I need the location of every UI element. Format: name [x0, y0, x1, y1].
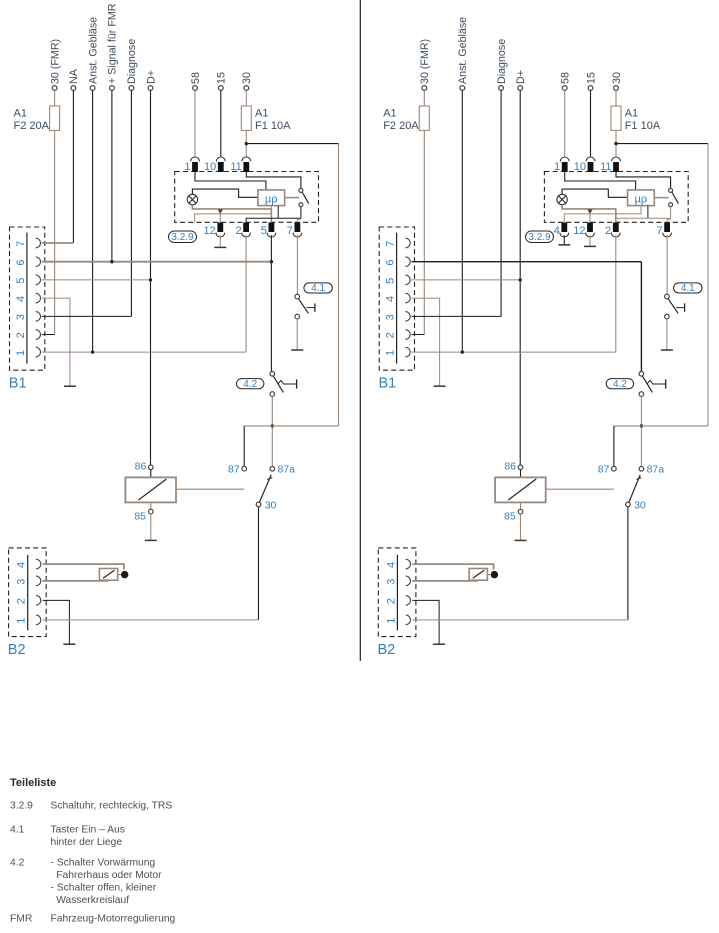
svg-text:87a: 87a [647, 464, 665, 476]
svg-text:Schaltuhr, rechteckig, TRS: Schaltuhr, rechteckig, TRS [51, 800, 173, 811]
svg-text:58: 58 [190, 72, 202, 84]
svg-text:NA: NA [68, 68, 80, 84]
svg-text:1: 1 [385, 350, 397, 356]
svg-text:7: 7 [15, 241, 27, 247]
svg-text:2: 2 [15, 332, 27, 338]
svg-text:2: 2 [605, 225, 611, 237]
svg-text:µρ: µρ [265, 194, 278, 206]
svg-text:30: 30 [265, 500, 277, 512]
svg-text:Fahrzeug-Motorregulierung: Fahrzeug-Motorregulierung [51, 914, 176, 925]
svg-text:µρ: µρ [635, 194, 648, 206]
svg-text:5: 5 [261, 225, 267, 237]
svg-text:hinter der Liege: hinter der Liege [51, 837, 123, 848]
svg-text:Anst. Gebläse: Anst. Gebläse [457, 17, 469, 84]
svg-text:6: 6 [385, 259, 397, 265]
svg-text:87: 87 [228, 464, 240, 476]
svg-text:1: 1 [385, 618, 397, 624]
svg-text:3: 3 [385, 314, 397, 320]
svg-text:- Schalter offen, kleiner: - Schalter offen, kleiner [51, 883, 157, 894]
svg-text:2: 2 [16, 598, 28, 604]
svg-text:30: 30 [241, 72, 253, 84]
svg-text:- Schalter Vorwärmung: - Schalter Vorwärmung [51, 858, 156, 869]
svg-text:A1: A1 [625, 108, 638, 120]
svg-text:F1 10A: F1 10A [625, 120, 661, 132]
svg-text:86: 86 [504, 461, 516, 473]
svg-text:B2: B2 [378, 642, 396, 658]
svg-text:7: 7 [385, 241, 397, 247]
svg-text:D+: D+ [145, 70, 157, 84]
svg-text:15: 15 [216, 72, 228, 84]
svg-text:1: 1 [16, 618, 28, 624]
svg-text:87: 87 [598, 464, 610, 476]
svg-text:A1: A1 [383, 108, 396, 120]
svg-text:4: 4 [385, 562, 397, 568]
svg-text:3.2.9: 3.2.9 [171, 232, 194, 243]
svg-text:30: 30 [611, 72, 623, 84]
svg-text:F2 20A: F2 20A [383, 120, 419, 132]
svg-text:A1: A1 [255, 108, 268, 120]
svg-text:10: 10 [204, 161, 216, 173]
svg-text:Wasserkreislauf: Wasserkreislauf [51, 895, 130, 906]
svg-text:3: 3 [16, 579, 28, 585]
svg-text:4: 4 [15, 296, 27, 302]
svg-text:7: 7 [287, 225, 293, 237]
svg-text:Diagnose: Diagnose [126, 39, 138, 84]
svg-text:+ Signal für FMR: + Signal für FMR [107, 3, 119, 84]
svg-text:3.2.9: 3.2.9 [528, 232, 551, 243]
svg-text:2: 2 [235, 225, 241, 237]
svg-text:4: 4 [16, 562, 28, 568]
svg-text:B1: B1 [379, 376, 397, 392]
svg-text:D+: D+ [515, 70, 527, 84]
svg-text:4.2: 4.2 [10, 858, 25, 869]
svg-text:86: 86 [135, 461, 147, 473]
svg-text:B2: B2 [8, 642, 26, 658]
svg-text:4: 4 [554, 225, 560, 237]
svg-text:5: 5 [385, 278, 397, 284]
svg-text:7: 7 [656, 225, 662, 237]
svg-text:58: 58 [560, 72, 572, 84]
svg-text:4.1: 4.1 [681, 283, 695, 294]
svg-text:4.1: 4.1 [10, 825, 25, 836]
svg-text:3: 3 [385, 579, 397, 585]
svg-text:4.2: 4.2 [243, 379, 257, 390]
svg-text:5: 5 [15, 278, 27, 284]
svg-text:1: 1 [15, 350, 27, 356]
svg-text:30 (FMR): 30 (FMR) [419, 39, 431, 84]
svg-text:85: 85 [134, 511, 146, 523]
svg-text:11: 11 [600, 161, 611, 173]
svg-text:15: 15 [585, 72, 597, 84]
svg-text:12: 12 [204, 225, 216, 237]
svg-text:10: 10 [574, 161, 586, 173]
svg-text:2: 2 [385, 598, 397, 604]
svg-text:F1 10A: F1 10A [255, 120, 291, 132]
svg-text:30 (FMR): 30 (FMR) [49, 39, 61, 84]
svg-text:F2 20A: F2 20A [14, 120, 50, 132]
svg-text:A1: A1 [14, 108, 27, 120]
svg-text:3: 3 [15, 314, 27, 320]
svg-text:85: 85 [504, 511, 516, 523]
svg-text:Teileliste: Teileliste [10, 777, 56, 789]
svg-text:Fahrerhaus oder Motor: Fahrerhaus oder Motor [51, 870, 163, 881]
svg-text:3.2.9: 3.2.9 [10, 800, 33, 811]
svg-text:B1: B1 [9, 376, 27, 392]
svg-text:Diagnose: Diagnose [496, 39, 508, 84]
svg-text:30: 30 [634, 500, 646, 512]
svg-text:1: 1 [554, 161, 560, 173]
svg-text:FMR: FMR [10, 914, 32, 925]
svg-text:1: 1 [184, 161, 190, 173]
svg-text:12: 12 [573, 225, 585, 237]
svg-text:4.1: 4.1 [311, 283, 325, 294]
svg-text:2: 2 [385, 332, 397, 338]
svg-text:4.2: 4.2 [613, 379, 627, 390]
svg-text:Taster Ein – Aus: Taster Ein – Aus [51, 825, 125, 836]
svg-text:11: 11 [230, 161, 241, 173]
svg-text:4: 4 [385, 296, 397, 302]
svg-text:87a: 87a [278, 464, 296, 476]
svg-text:Anst. Gebläse: Anst. Gebläse [87, 17, 99, 84]
svg-text:6: 6 [15, 259, 27, 265]
